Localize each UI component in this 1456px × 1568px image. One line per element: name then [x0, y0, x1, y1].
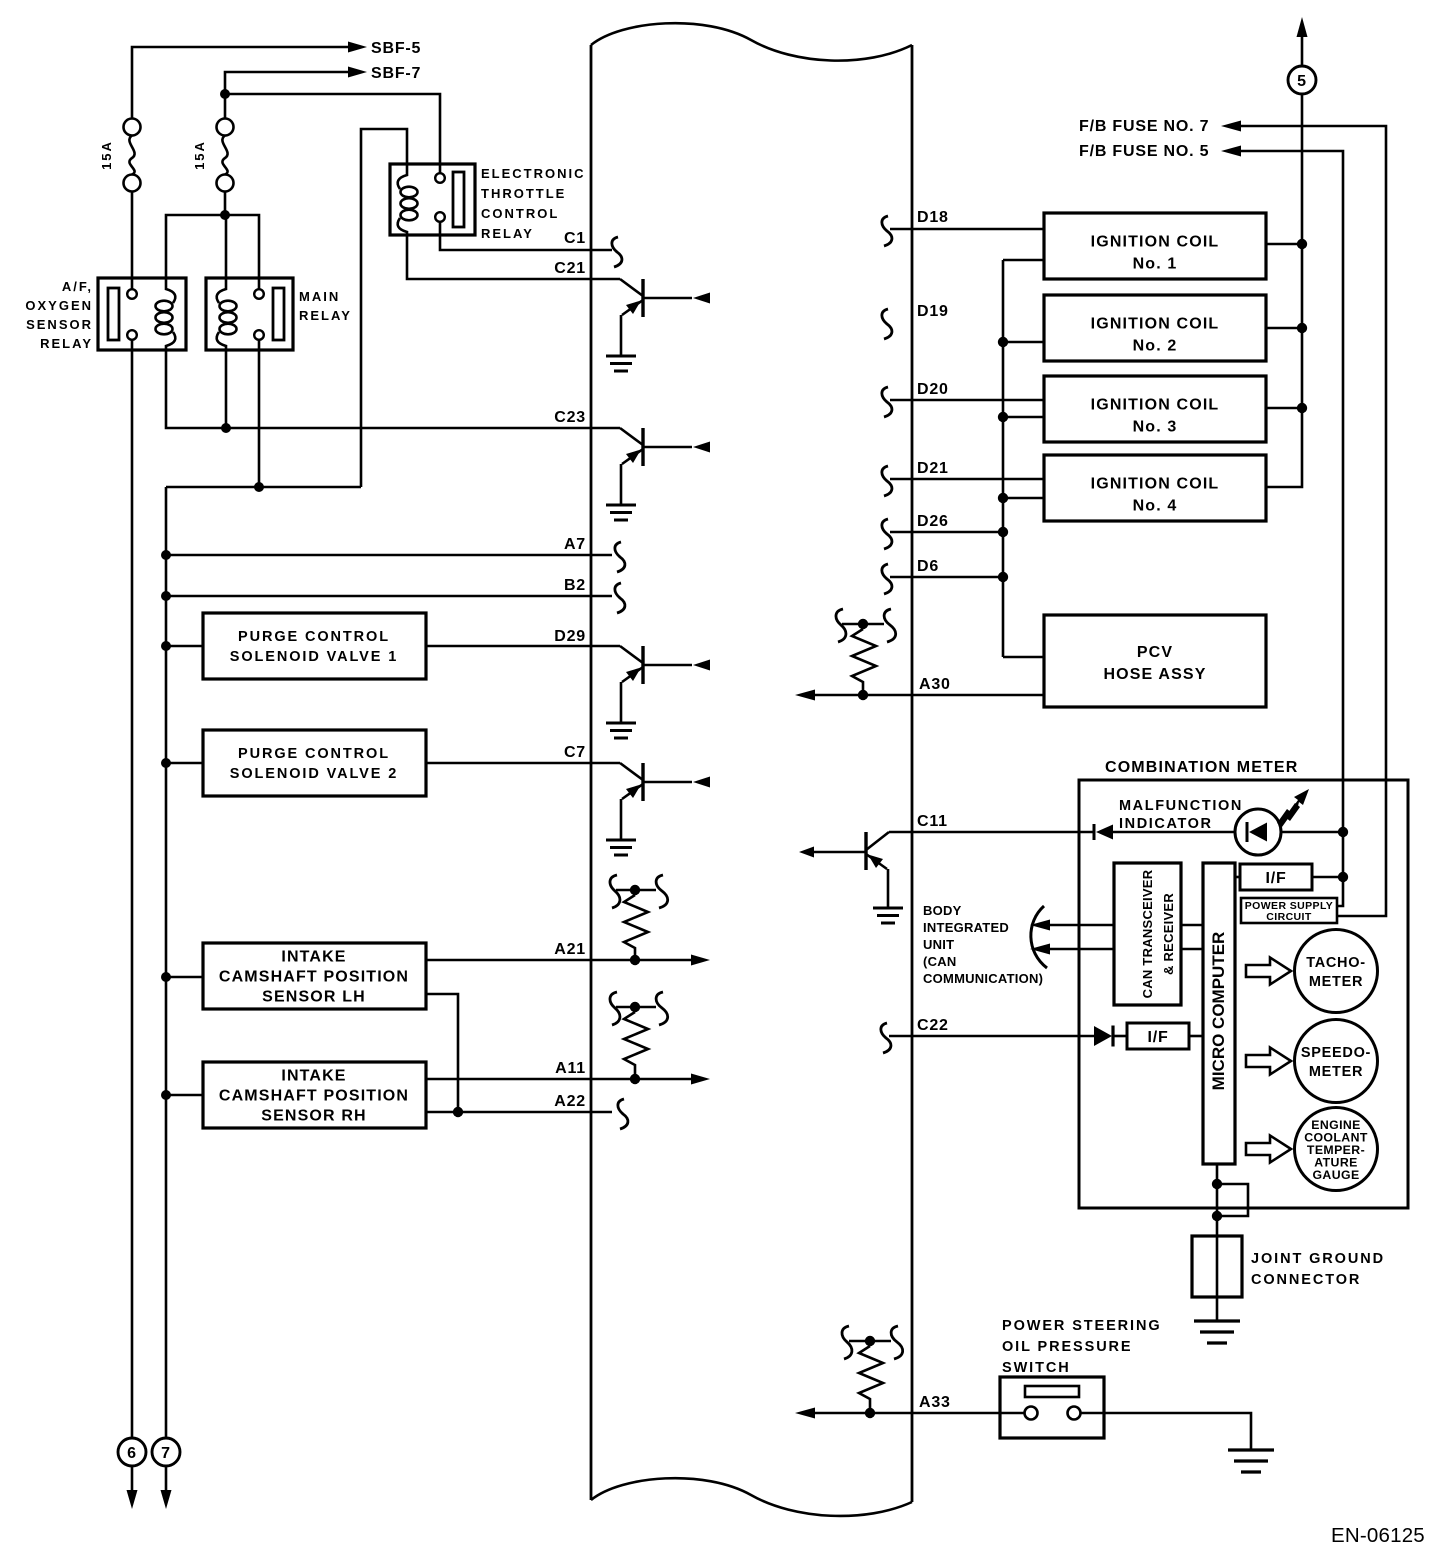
- svg-text:PURGE CONTROL: PURGE CONTROL: [238, 746, 390, 762]
- wire common bus to ignition coil 1 lower input: [1003, 259, 1044, 262]
- wire A33: [814, 1412, 1000, 1415]
- LED malfunction indicator lamp: [1235, 809, 1281, 855]
- svg-text:C22: C22: [917, 1017, 949, 1034]
- node coil4 tap: [998, 493, 1008, 503]
- break squiggle C1: [612, 237, 622, 267]
- intake camshaft position sensor RH box: [203, 1062, 426, 1128]
- wire junction to main relay contact: [225, 215, 259, 289]
- hollow arrow to coolant gauge: [1246, 1136, 1291, 1163]
- ECM band top wavy edge: [591, 23, 912, 60]
- svg-text:C7: C7: [564, 744, 586, 761]
- switch contact left: [1025, 1407, 1038, 1420]
- break squiggle right of A21 pull-up: [656, 875, 668, 908]
- wire A11 sensor RH to ECM: [426, 1078, 692, 1081]
- transistor Q1 (C21 driver): [620, 279, 710, 356]
- wire K1 coil bottom to C23 line: [166, 350, 620, 428]
- wire C22: [889, 1035, 1096, 1038]
- wire D6 to coil common bus: [890, 576, 1003, 579]
- node main relay coil joins C23 line: [221, 423, 231, 433]
- relay K2 contact bar: [273, 288, 284, 340]
- meter ground bypass loop: [1217, 1184, 1248, 1216]
- fuse 15A no.1: [124, 119, 141, 192]
- svg-text:MICRO COMPUTER: MICRO COMPUTER: [1209, 932, 1228, 1091]
- svg-text:I/F: I/F: [1147, 1029, 1168, 1046]
- svg-text:PURGE CONTROL: PURGE CONTROL: [238, 629, 390, 645]
- ignition coil No.1 box: [1044, 213, 1266, 279]
- wire ignition coil 3 output: [1266, 407, 1302, 410]
- wire D29 purge valve 1 to ECM: [426, 645, 620, 648]
- wire micro computer to I/F upper: [1235, 876, 1240, 879]
- svg-text:CONTROL: CONTROL: [481, 206, 559, 221]
- wire common bus to ignition coil 3 lower input: [1003, 416, 1044, 419]
- wire switch internal right: [1081, 1412, 1105, 1415]
- node camshaft LH tap on left bus: [161, 972, 171, 982]
- ground joint connector: [1194, 1321, 1240, 1343]
- svg-text:INTAKE: INTAKE: [281, 1068, 346, 1085]
- wire common bus to PCV hose assy: [1003, 656, 1044, 659]
- arrow A30 out of ECM: [795, 690, 815, 701]
- arrow to SBF-7: [348, 67, 367, 78]
- wire A30: [814, 694, 1044, 697]
- node meter ground lower: [1212, 1211, 1222, 1221]
- svg-text:CAMSHAFT POSITION: CAMSHAFT POSITION: [219, 1088, 409, 1105]
- svg-text:POWER STEERING: POWER STEERING: [1002, 1318, 1162, 1334]
- svg-text:C11: C11: [917, 813, 948, 830]
- arrow to F/B fuse no.5: [1221, 146, 1241, 157]
- svg-text:15A: 15A: [192, 140, 207, 170]
- wire SBF-7 feed: [225, 72, 350, 118]
- node coil2 tap: [998, 337, 1008, 347]
- engine coolant temperature gauge circle: [1295, 1108, 1378, 1191]
- svg-text:C23: C23: [554, 409, 586, 426]
- svg-text:D20: D20: [917, 381, 949, 398]
- svg-text:F/B FUSE NO. 5: F/B FUSE NO. 5: [1079, 143, 1209, 160]
- wire switch internal left: [1000, 1412, 1025, 1415]
- diode D1 on C11 line: [1093, 824, 1096, 840]
- relay K1 coil: [156, 278, 176, 350]
- wire bus to camshaft sensor RH: [166, 1094, 203, 1097]
- node main relay contact joins rail: [254, 482, 264, 492]
- relay K1 contact pin bottom: [127, 330, 137, 340]
- node junction on SBF-7 branch: [220, 89, 230, 99]
- power steering oil pressure switch box: [1000, 1377, 1104, 1438]
- svg-text:D6: D6: [917, 558, 939, 575]
- node coil3 output on supply line: [1297, 403, 1307, 413]
- svg-text:GAUGE: GAUGE: [1312, 1168, 1359, 1182]
- wire common bus to ignition coil 4 lower input: [1003, 497, 1044, 500]
- arrow CAN high: [1030, 920, 1050, 931]
- break squiggle left of A21 pull-up: [610, 875, 620, 908]
- arrow CAN low: [1030, 944, 1050, 955]
- ground power steering switch: [1228, 1450, 1274, 1472]
- svg-text:D26: D26: [917, 513, 949, 530]
- node coil1 output on supply line: [1297, 239, 1307, 249]
- ground Q1: [606, 356, 636, 371]
- svg-text:5: 5: [1297, 73, 1307, 90]
- wire switch to ground: [1104, 1413, 1251, 1450]
- node junction below fuse2: [220, 210, 230, 220]
- svg-text:BODY: BODY: [923, 903, 962, 918]
- wire ignition coil 4 output to supply line: [1266, 94, 1302, 487]
- svg-text:CONNECTOR: CONNECTOR: [1251, 1272, 1361, 1288]
- break squiggle left of A33 pull-up: [842, 1326, 852, 1359]
- wire C7 purge valve 2 to ECM: [426, 762, 620, 765]
- wire K2 contact bottom to switched-power rail: [258, 340, 261, 487]
- relay K1 contact pin top: [127, 289, 137, 299]
- wire I/F upper to supply: [1312, 876, 1343, 879]
- relay K2 contact pin top: [254, 289, 264, 299]
- svg-text:B2: B2: [564, 577, 586, 594]
- break squiggle D18: [882, 216, 892, 246]
- wire CAN low to body integrated unit: [1046, 948, 1114, 951]
- svg-text:JOINT GROUND: JOINT GROUND: [1251, 1251, 1385, 1267]
- circled connector 7: [152, 1438, 180, 1466]
- node coil3 tap: [998, 412, 1008, 422]
- speedometer gauge circle: [1295, 1020, 1378, 1103]
- relay K3 coil: [398, 164, 418, 235]
- svg-text:IGNITION COIL: IGNITION COIL: [1091, 476, 1220, 493]
- hollow arrow to tachometer: [1246, 958, 1291, 985]
- svg-text:INDICATOR: INDICATOR: [1119, 816, 1213, 832]
- svg-text:RELAY: RELAY: [40, 336, 93, 351]
- svg-text:D21: D21: [917, 460, 949, 477]
- svg-text:IGNITION COIL: IGNITION COIL: [1091, 234, 1220, 251]
- wire diode to LED: [1113, 831, 1235, 834]
- node D26 on coil common bus: [998, 527, 1008, 537]
- svg-text:A/F,: A/F,: [62, 279, 93, 294]
- svg-text:HOSE ASSY: HOSE ASSY: [1103, 666, 1206, 683]
- break squiggle D26: [882, 519, 892, 549]
- relay K2 coil: [217, 278, 237, 350]
- wire CAN box to micro computer lower: [1181, 948, 1203, 951]
- wire D18 to ignition coil 1: [890, 228, 1044, 231]
- pull-up node above A30: [842, 623, 884, 626]
- transistor Q2 (C23 driver): [620, 428, 710, 505]
- svg-text:D29: D29: [554, 628, 586, 645]
- svg-text:IGNITION COIL: IGNITION COIL: [1091, 316, 1220, 333]
- svg-text:RELAY: RELAY: [481, 226, 534, 241]
- svg-text:SOLENOID VALVE 2: SOLENOID VALVE 2: [230, 766, 398, 782]
- ground Q2: [606, 505, 636, 520]
- wire junction to electronic throttle control relay contact: [225, 94, 440, 173]
- wire sensor LH lower output to A22: [426, 994, 458, 1112]
- CAN transceiver and receiver box: [1114, 863, 1181, 1005]
- wire CAN high to body integrated unit: [1046, 924, 1114, 927]
- wire K3 coil top to switched-power rail: [361, 129, 407, 487]
- node A11 resistor junction: [630, 1074, 640, 1084]
- pull-up node above A21: [616, 889, 656, 892]
- switch contact right: [1068, 1407, 1081, 1420]
- svg-text:INTAKE: INTAKE: [281, 949, 346, 966]
- break squiggle C22: [881, 1023, 891, 1053]
- svg-text:IGNITION COIL: IGNITION COIL: [1091, 397, 1220, 414]
- I/F box upper: [1240, 864, 1312, 890]
- svg-text:UNIT: UNIT: [923, 937, 954, 952]
- joint ground connector box: [1192, 1236, 1242, 1297]
- svg-text:No. 1: No. 1: [1133, 256, 1178, 273]
- svg-text:CAN TRANSCEIVER: CAN TRANSCEIVER: [1140, 869, 1155, 998]
- wire ignition coil 1 output: [1266, 243, 1302, 246]
- svg-text:A11: A11: [555, 1060, 586, 1077]
- break squiggle right of A11 pull-up: [656, 992, 668, 1025]
- coil common bus vertical: [1002, 260, 1005, 657]
- svg-text:PCV: PCV: [1137, 644, 1173, 661]
- power supply circuit box: [1241, 898, 1337, 923]
- wire D26 to coil common bus: [890, 531, 1003, 534]
- break squiggle A7: [615, 542, 625, 572]
- svg-text:SWITCH: SWITCH: [1002, 1360, 1071, 1376]
- node meter ground upper: [1212, 1179, 1222, 1189]
- svg-text:METER: METER: [1309, 974, 1363, 990]
- wire junction to A/F relay coil: [166, 215, 225, 278]
- wire F/B fuse no.5: [1240, 151, 1343, 906]
- wire micro computer ground: [1216, 1164, 1219, 1321]
- svg-text:SENSOR LH: SENSOR LH: [262, 989, 366, 1006]
- wire SBF-5 feed: [132, 47, 350, 118]
- resistor R3 (A30 pull-up): [852, 629, 876, 690]
- node camshaft RH tap on left bus: [161, 1090, 171, 1100]
- wire D21 to ignition coil 4: [890, 478, 1044, 481]
- svg-text:F/B FUSE NO. 7: F/B FUSE NO. 7: [1079, 118, 1209, 135]
- micro computer box: [1203, 863, 1235, 1164]
- svg-text:7: 7: [161, 1445, 171, 1462]
- svg-text:No. 2: No. 2: [1133, 338, 1178, 355]
- relay K3 electronic throttle control relay box: [390, 164, 475, 235]
- svg-text:OXYGEN: OXYGEN: [25, 298, 93, 313]
- arrow A11 into ECM: [691, 1074, 710, 1085]
- break squiggle B2: [615, 583, 625, 613]
- arrow A21 into ECM: [691, 955, 710, 966]
- svg-text:SPEEDO-: SPEEDO-: [1301, 1045, 1371, 1061]
- node D29 tap on left bus: [161, 641, 171, 651]
- wire K3 coil bottom to C21: [407, 235, 620, 279]
- svg-text:MALFUNCTION: MALFUNCTION: [1119, 798, 1243, 814]
- resistor R4 (A33 pull-up): [859, 1346, 883, 1408]
- wire CAN box to micro computer upper: [1181, 924, 1203, 927]
- switched-power rail horizontal: [166, 486, 361, 489]
- ignition coil No.2 box: [1044, 295, 1266, 361]
- svg-text:THROTTLE: THROTTLE: [481, 186, 566, 201]
- wire LED to supply: [1281, 831, 1343, 834]
- wire A22 sensor RH to ECM: [426, 1111, 612, 1114]
- break squiggle left of A30 pull-up: [836, 609, 846, 642]
- svg-text:A30: A30: [919, 676, 951, 693]
- svg-text:ELECTRONIC: ELECTRONIC: [481, 166, 586, 181]
- relay K2 contact pin bottom: [254, 330, 264, 340]
- svg-text:OIL PRESSURE: OIL PRESSURE: [1002, 1339, 1133, 1355]
- node A30 resistor bottom: [858, 690, 868, 700]
- arrow above connector 5: [1301, 36, 1304, 66]
- svg-text:C21: C21: [554, 260, 586, 277]
- svg-text:C1: C1: [564, 230, 586, 247]
- wire A7: [166, 554, 612, 557]
- wire K3 contact bottom to C1: [440, 222, 612, 250]
- wire fuse2 to relay junction: [224, 192, 227, 216]
- node A22 join from sensor LH: [453, 1107, 463, 1117]
- transistor Q5 (C11 driver, mirrored): [799, 832, 889, 908]
- wire fuse1 to A/F relay: [131, 192, 134, 290]
- break squiggle right of A33 pull-up: [891, 1326, 903, 1359]
- ground Q5: [873, 908, 903, 923]
- svg-text:D18: D18: [917, 209, 949, 226]
- wire D20 to ignition coil 3: [890, 399, 1044, 402]
- svg-text:EN-06125: EN-06125: [1331, 1524, 1425, 1547]
- pull-up node above A11: [616, 1006, 656, 1009]
- node A33 resistor bottom: [865, 1408, 875, 1418]
- break squiggle D21: [882, 466, 892, 496]
- node D6 on coil common bus: [998, 572, 1008, 582]
- wire C11 to malfunction indicator: [889, 831, 1093, 834]
- tachometer gauge circle: [1295, 930, 1378, 1013]
- svg-text:No. 3: No. 3: [1133, 419, 1178, 436]
- node C7 tap on left bus: [161, 758, 171, 768]
- svg-text:COMMUNICATION): COMMUNICATION): [923, 971, 1043, 986]
- wire I/F lower to micro computer: [1189, 1035, 1203, 1038]
- wire K1 contact pin bottom down: [131, 340, 134, 1438]
- break squiggle D6: [882, 564, 892, 594]
- svg-text:A7: A7: [564, 536, 586, 553]
- svg-text:15A: 15A: [99, 140, 114, 170]
- body integrated unit paren: [1031, 906, 1047, 968]
- arrow below connector 6: [131, 1466, 134, 1492]
- PCV hose assy box: [1044, 615, 1266, 707]
- svg-text:SENSOR RH: SENSOR RH: [261, 1108, 366, 1125]
- node B2 tap on left bus: [161, 591, 171, 601]
- I/F box lower: [1127, 1023, 1189, 1049]
- hollow arrow to speedometer: [1246, 1048, 1291, 1075]
- break squiggle left of A11 pull-up: [610, 992, 620, 1025]
- wire ignition coil 2 output: [1266, 327, 1302, 330]
- left power bus: [165, 487, 168, 1438]
- relay K1 A/F oxygen sensor relay box: [98, 278, 186, 350]
- purge control solenoid valve 1 box: [203, 613, 426, 679]
- relay K2 main relay box: [206, 278, 293, 350]
- ECM band left edge: [590, 45, 593, 1500]
- break squiggle D19: [882, 309, 892, 339]
- wire bus to purge valve 2: [166, 762, 203, 765]
- svg-text:A33: A33: [919, 1394, 951, 1411]
- svg-text:No. 4: No. 4: [1133, 498, 1178, 515]
- wire A21 sensor LH to ECM: [426, 959, 692, 962]
- arrow to F/B fuse no.7: [1221, 121, 1241, 132]
- svg-text:& RECEIVER: & RECEIVER: [1161, 893, 1176, 975]
- node LED supply on F/B5 line: [1338, 827, 1348, 837]
- svg-text:COMBINATION METER: COMBINATION METER: [1105, 759, 1298, 776]
- ECM band right edge: [911, 45, 914, 1502]
- switch inner bar: [1025, 1386, 1079, 1397]
- svg-text:A22: A22: [554, 1093, 586, 1110]
- svg-text:I/F: I/F: [1265, 870, 1286, 887]
- svg-text:METER: METER: [1309, 1064, 1363, 1080]
- resistor R1 (A21 pull-up): [624, 895, 648, 955]
- svg-text:SENSOR: SENSOR: [26, 317, 93, 332]
- relay K1 contact bar: [108, 288, 119, 340]
- svg-text:SOLENOID VALVE 1: SOLENOID VALVE 1: [230, 649, 398, 665]
- purge control solenoid valve 2 box: [203, 730, 426, 796]
- pull-up node above A33: [849, 1340, 891, 1343]
- svg-text:6: 6: [127, 1445, 137, 1462]
- svg-text:D19: D19: [917, 303, 949, 320]
- wire diode to I/F lower: [1114, 1035, 1127, 1038]
- wire B2: [166, 595, 612, 598]
- svg-text:RELAY: RELAY: [299, 308, 352, 323]
- arrow A33 out of ECM: [795, 1408, 815, 1419]
- intake camshaft position sensor LH box: [203, 943, 426, 1009]
- ground Q4: [606, 840, 636, 855]
- diode D2 on C22 line: [1094, 1026, 1112, 1046]
- svg-text:TACHO-: TACHO-: [1306, 955, 1366, 971]
- svg-text:A21: A21: [554, 941, 586, 958]
- relay K3 contact pin bottom: [435, 212, 445, 222]
- wire F/B fuse no.7: [1240, 126, 1386, 916]
- svg-text:CIRCUIT: CIRCUIT: [1266, 911, 1312, 923]
- combination meter box: [1079, 780, 1408, 1208]
- svg-text:MAIN: MAIN: [299, 289, 340, 304]
- ignition coil No.3 box: [1044, 376, 1266, 442]
- resistor R2 (A11 pull-up): [624, 1012, 648, 1074]
- relay K3 contact bar: [453, 172, 464, 227]
- ignition coil No.4 box: [1044, 455, 1266, 521]
- circled connector 5: [1288, 66, 1316, 94]
- svg-text:CAMSHAFT POSITION: CAMSHAFT POSITION: [219, 969, 409, 986]
- arrow below connector 7: [165, 1466, 168, 1492]
- wire bus to purge valve 1: [166, 645, 203, 648]
- svg-text:(CAN: (CAN: [923, 954, 957, 969]
- wire junction to main relay coil: [225, 215, 228, 278]
- wire K2 coil bottom to C23 node: [225, 350, 228, 428]
- arrow to SBF-5: [348, 42, 367, 53]
- node I/F supply on F/B5 line: [1338, 872, 1348, 882]
- ground Q3: [606, 723, 636, 738]
- svg-text:INTEGRATED: INTEGRATED: [923, 920, 1009, 935]
- wire common bus to ignition coil 2 lower input: [1003, 341, 1044, 344]
- ECM band bottom wavy edge: [591, 1478, 912, 1516]
- circled connector 6: [118, 1438, 146, 1466]
- fuse 15A no.2: [217, 119, 234, 192]
- break squiggle D20: [882, 387, 892, 417]
- wire bus to camshaft sensor LH: [166, 976, 203, 979]
- transistor Q4 (C7 driver): [620, 763, 710, 840]
- svg-text:SBF-7: SBF-7: [371, 65, 421, 82]
- node A7 tap on left bus: [161, 550, 171, 560]
- LED lightning emission arrow: [1277, 809, 1292, 827]
- node coil2 output on supply line: [1297, 323, 1307, 333]
- relay K3 contact pin top: [435, 173, 445, 183]
- svg-text:SBF-5: SBF-5: [371, 40, 421, 57]
- break squiggle right of A30 pull-up: [884, 609, 896, 642]
- node A21 resistor junction: [630, 955, 640, 965]
- transistor Q3 (D29 driver): [620, 646, 710, 723]
- break squiggle A22: [618, 1099, 628, 1129]
